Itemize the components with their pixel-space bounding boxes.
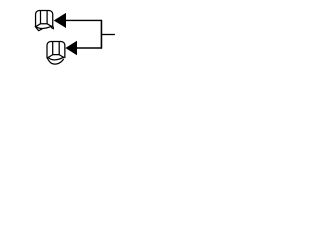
arrowhead into device 2	[65, 41, 77, 55]
device symbol 1 (cap/nut shape, top-left)	[35, 11, 53, 31]
stub wire to the right	[102, 34, 115, 36]
arrowhead into device 1	[54, 13, 66, 28]
device symbol 2 (cap/nut shape, lower-left)	[47, 41, 65, 64]
wire from arrowhead 1 to bus	[66, 19, 103, 21]
vertical bus wire	[100, 20, 102, 49]
wire from arrowhead 2 to bus	[77, 47, 103, 49]
